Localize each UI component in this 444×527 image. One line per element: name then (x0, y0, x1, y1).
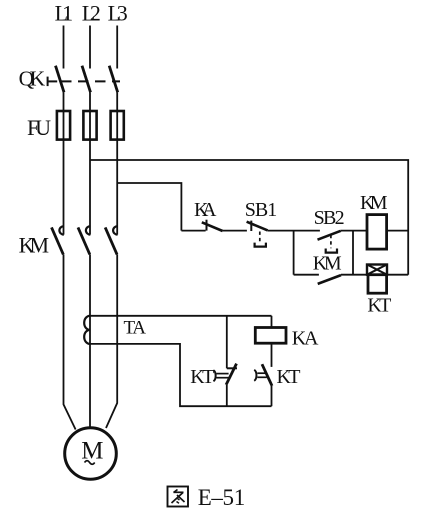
wire phase B to motor (89, 254, 91, 427)
relay contact KA label (194, 199, 217, 221)
coil KM label (360, 192, 388, 214)
label L2 (82, 0, 101, 25)
pushbutton SB1 label (245, 199, 278, 221)
contactor KM label main (19, 232, 49, 257)
relay KT element label (367, 294, 391, 316)
fuse FU2 (83, 111, 96, 140)
wire right KT branch bottom (271, 386, 273, 406)
label L3 (108, 0, 128, 25)
contact KT right label (277, 366, 301, 388)
wire parallel block right rail (352, 231, 354, 275)
svg-text:L1: L1 (55, 0, 74, 25)
svg-text:L3: L3 (108, 0, 128, 25)
contactor KM main contact 1 (52, 226, 64, 254)
svg-text:KT: KT (190, 366, 214, 388)
wire parallel block left rail (293, 231, 295, 275)
svg-text:SB2: SB2 (314, 207, 345, 229)
svg-text:FU: FU (27, 115, 51, 140)
contactor KM main contact 2 (78, 226, 90, 254)
label L1 (55, 0, 74, 25)
contactor KM aux contact (NO) (318, 275, 341, 284)
svg-text:E–51: E–51 (198, 485, 246, 510)
fuse FU label (27, 115, 51, 140)
relay contact KA (NC) (202, 220, 223, 231)
wire TA secondary top (90, 315, 272, 317)
wire KA to SB1 (181, 230, 247, 232)
wire feed to KA coil (271, 316, 273, 328)
wire phase B QK to fuse (89, 92, 91, 234)
transformer TA label (124, 317, 147, 338)
coil KM (367, 215, 387, 250)
pushbutton SB1 (NC) (247, 221, 268, 247)
wire L2 drop (89, 26, 91, 69)
motor M (65, 428, 117, 480)
fuse FU3 (111, 111, 124, 140)
wire left KT branch bottom (226, 385, 228, 406)
svg-text:KM: KM (313, 252, 342, 274)
wire phase C QK to fuse (116, 92, 118, 234)
svg-text:KA: KA (292, 328, 319, 350)
wire L1 drop (63, 26, 65, 69)
contactor KM main contact 3 (105, 226, 117, 254)
coil KA label (292, 328, 319, 350)
switch QK pole 1 blade (56, 66, 65, 93)
contactor KM aux label (313, 252, 342, 274)
wire left KT branch top (226, 316, 228, 369)
contact KT left (NC delayed) (213, 364, 237, 385)
svg-text:KM: KM (19, 232, 49, 257)
wire control feed left (117, 183, 181, 231)
wire KM aux row (294, 274, 367, 276)
relay KT delay element (box with X) (367, 265, 387, 275)
switch QK pole 3 blade (109, 66, 118, 93)
wire phase A to motor (64, 254, 76, 429)
wire TA secondary bottom (90, 344, 272, 406)
wire KM coil to right rail (387, 230, 409, 232)
svg-text:KT: KT (277, 366, 301, 388)
wire phase C to motor (106, 254, 117, 428)
switch QK label (19, 66, 46, 90)
switch QK pole 2 blade (82, 66, 91, 93)
wire KT row right (387, 274, 408, 276)
switch QK handle (48, 77, 58, 87)
switch QK linkage dashed (61, 80, 120, 82)
svg-text:L2: L2 (82, 0, 101, 25)
svg-text:TA: TA (124, 317, 147, 338)
fuse FU1 (57, 111, 70, 140)
wire KA coil to KT contact (271, 343, 273, 367)
svg-text:SB1: SB1 (245, 199, 278, 221)
caption E-51 (198, 485, 246, 510)
contact KT left label (190, 366, 214, 388)
wire control feed top (90, 160, 408, 275)
wire L3 drop (116, 26, 118, 69)
svg-text:KT: KT (367, 294, 391, 316)
caption CJK tu glyph (168, 487, 189, 507)
relay KT coil box (368, 275, 387, 294)
motor M label (81, 438, 103, 465)
svg-text:QK: QK (19, 66, 46, 90)
contact KT right (NO delayed) (254, 364, 272, 386)
pushbutton SB2 (NO) (318, 231, 341, 253)
motor tilde (85, 461, 95, 465)
svg-text:KA: KA (194, 199, 217, 221)
coil KA (255, 328, 286, 344)
svg-text:M: M (81, 438, 103, 465)
wire SB2 to coil row (341, 230, 367, 232)
wire phase A QK to fuse (63, 92, 65, 234)
pushbutton SB2 label (314, 207, 345, 229)
svg-text:KM: KM (360, 192, 388, 214)
transformer TA secondary arcs (84, 316, 90, 344)
wire SB1 to node (268, 230, 320, 232)
